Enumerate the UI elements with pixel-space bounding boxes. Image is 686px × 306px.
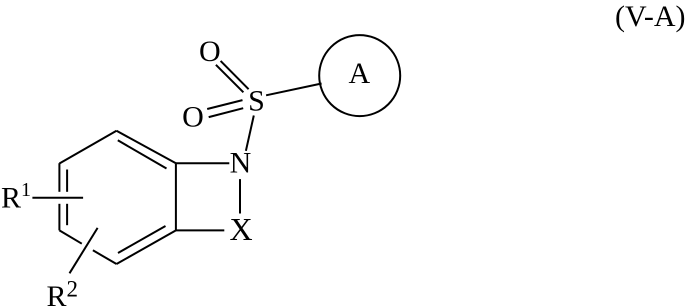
benzene left edge upper segment: [58, 163, 60, 192]
svg-text:R2: R2: [47, 277, 79, 306]
svg-text:O: O: [182, 101, 204, 134]
bond ring to N: [176, 162, 229, 164]
benzene bottom-left edge lower segment: [93, 250, 117, 264]
double bond inner line left upper: [66, 170, 68, 192]
svg-text:R1: R1: [1, 179, 31, 215]
S=O upper double bond line 2: [216, 65, 244, 93]
svg-text:N: N: [230, 146, 252, 179]
bond R1 to ring: [32, 197, 83, 199]
ring A circle: [319, 35, 400, 116]
svg-text:X: X: [229, 211, 252, 247]
benzene top-left edge: [59, 131, 116, 164]
svg-text:(V-A): (V-A): [615, 0, 686, 33]
svg-text:O: O: [199, 35, 221, 68]
double bond inner line top-right: [118, 140, 167, 168]
double bond inner line left lower: [66, 204, 68, 225]
benzene bottom-right edge: [117, 230, 176, 264]
bond N to X: [239, 179, 241, 213]
S=O upper double bond line 1: [221, 61, 249, 89]
svg-text:S: S: [248, 84, 265, 117]
bond X to ring: [176, 229, 224, 231]
benzene left edge lower segment: [58, 204, 60, 231]
bond S to N: [246, 116, 254, 151]
svg-text:A: A: [348, 57, 370, 90]
double bond inner line bottom-right: [118, 226, 166, 253]
bond R2 to ring: [70, 228, 98, 273]
S=O left double bond line 2: [209, 108, 244, 117]
S=O left double bond line 1: [207, 100, 242, 109]
bond S to ring A: [266, 84, 322, 96]
benzene bottom-left edge upper segment: [59, 230, 81, 243]
benzene right edge (fused bond): [175, 163, 177, 230]
benzene top-right edge: [117, 131, 176, 163]
